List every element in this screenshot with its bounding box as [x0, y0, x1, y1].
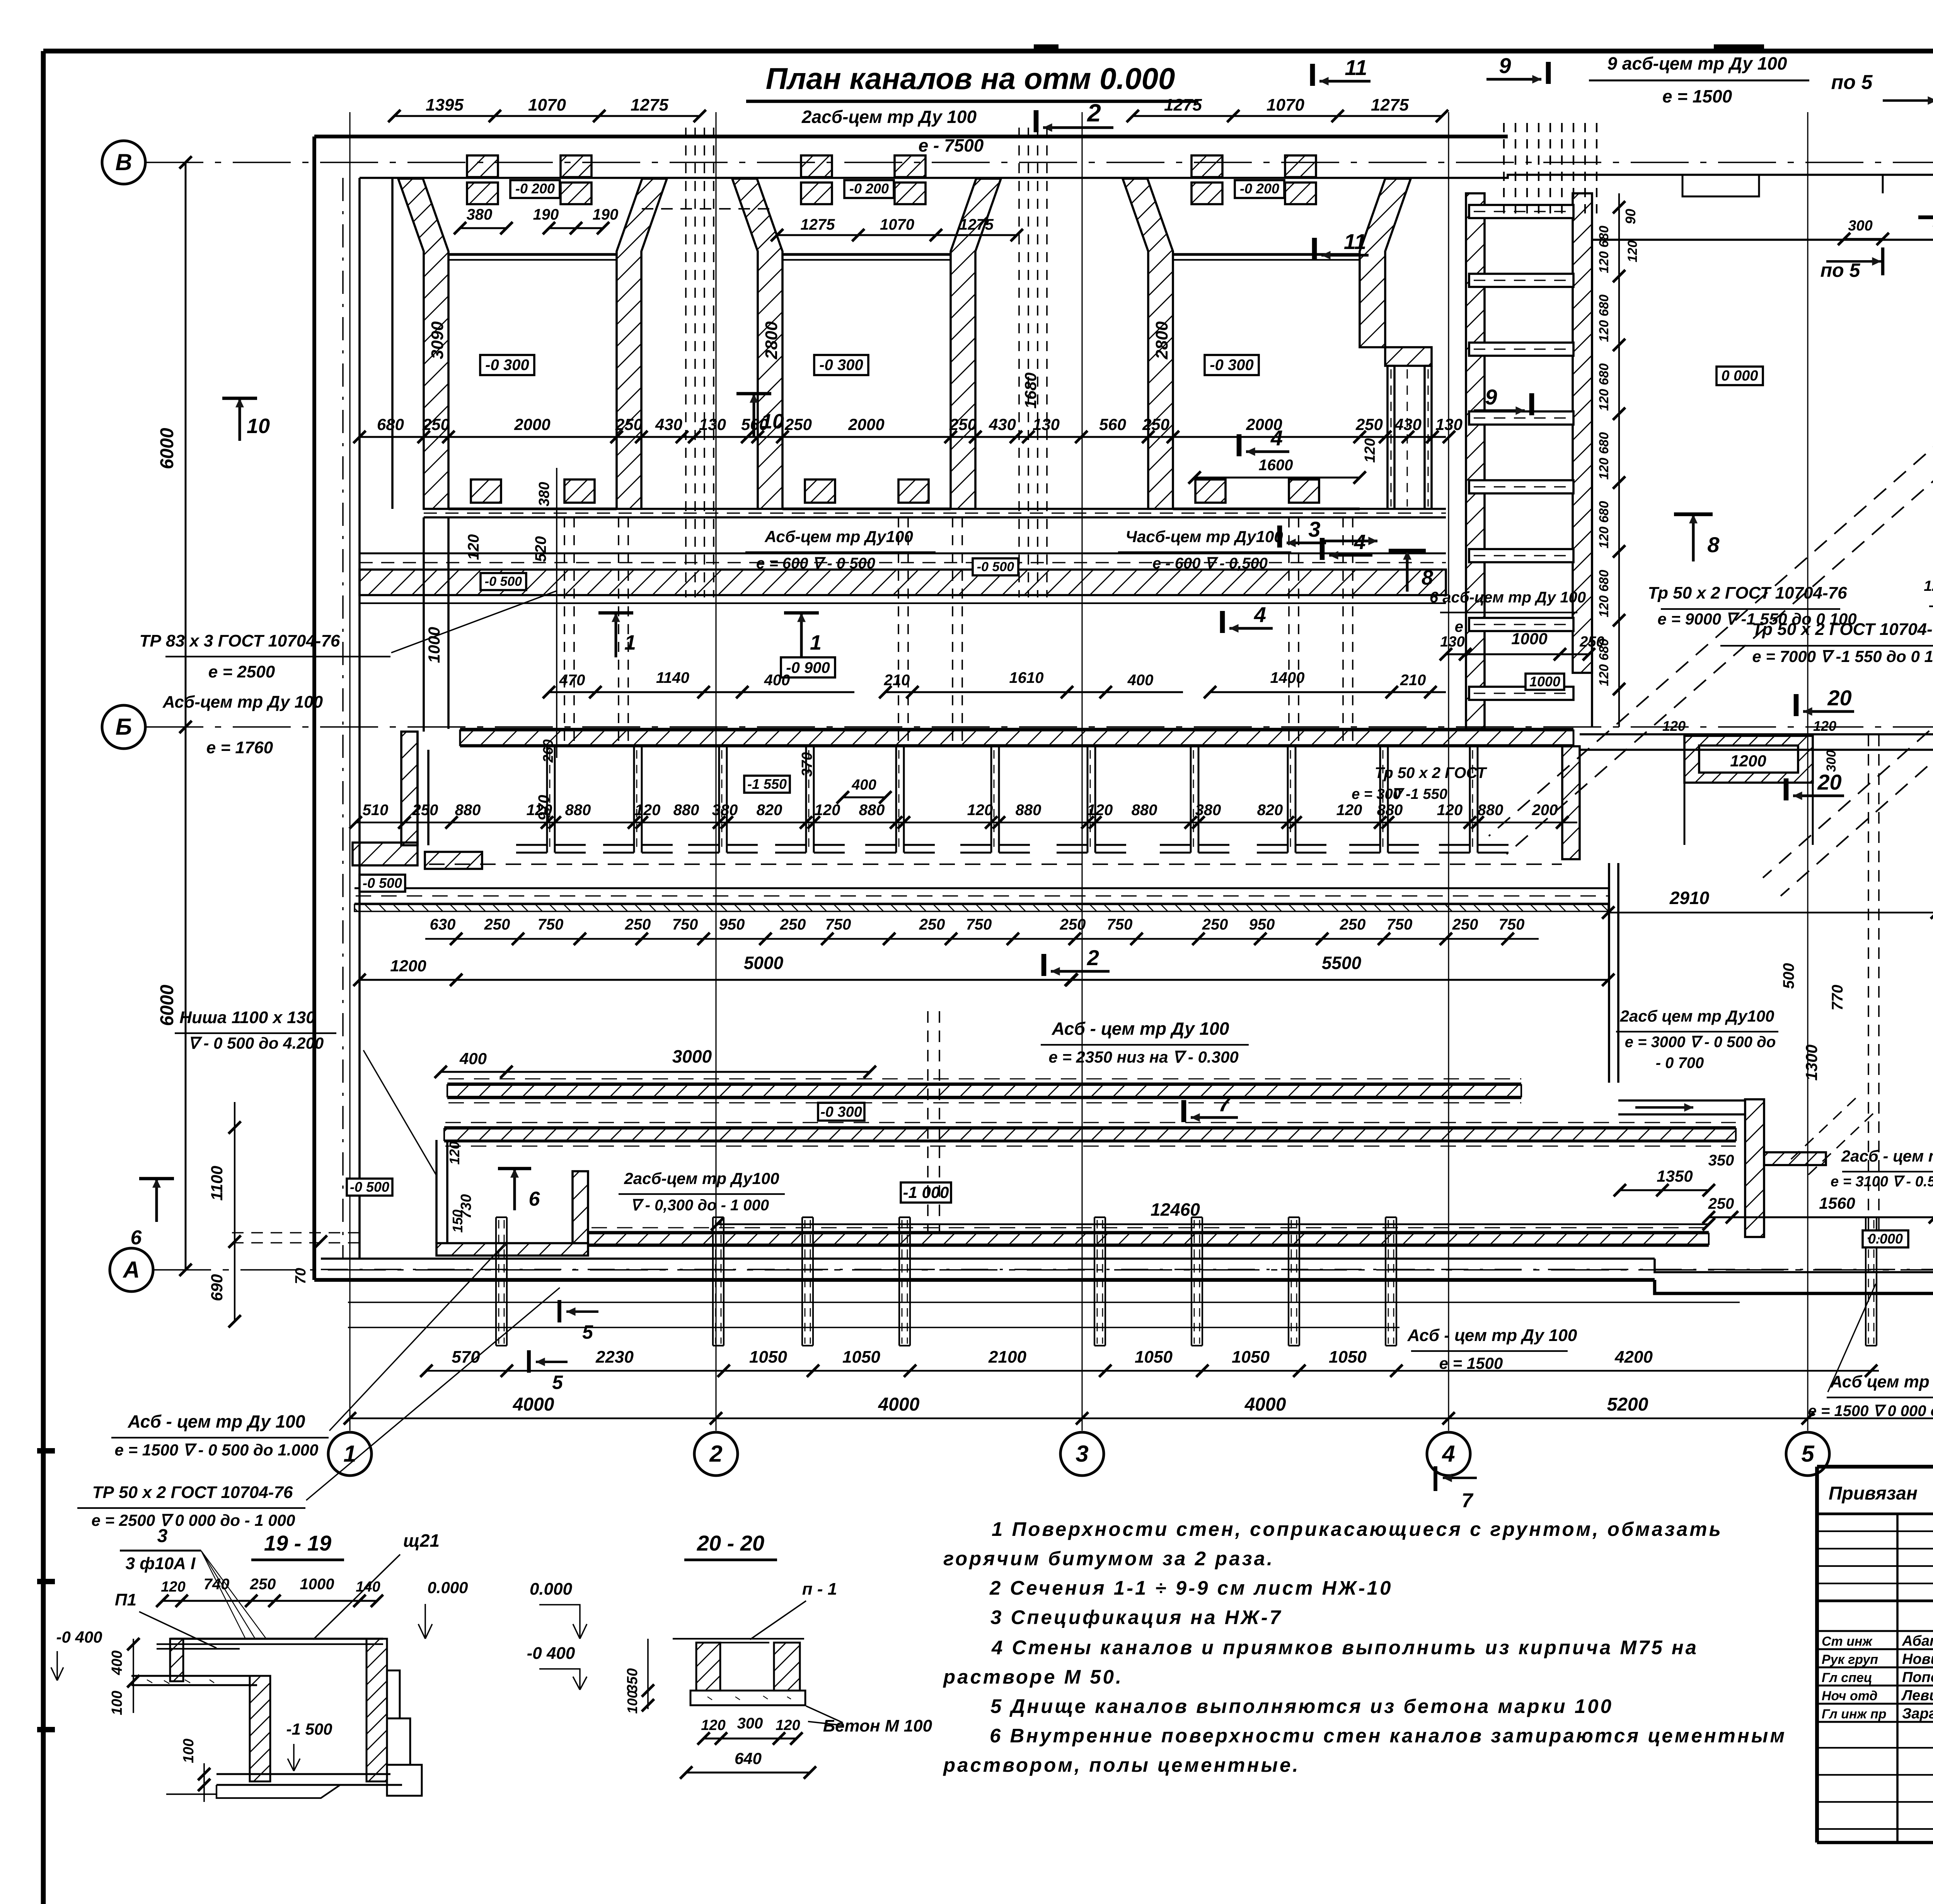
bottom dim row 570/2230/1050...	[425, 1370, 1879, 1372]
grid axis B horizontal	[102, 141, 145, 184]
svg-text:3: 3	[1076, 1441, 1088, 1467]
svg-text:раствором, полы цементные.: раствором, полы цементные.	[943, 1754, 1300, 1776]
cell2 dim row 1275/1070/1275	[777, 234, 1017, 236]
svg-text:-0 500: -0 500	[977, 560, 1014, 574]
axis circle 4	[1427, 1432, 1470, 1476]
svg-text:Привязан: Привязан	[1829, 1483, 1918, 1504]
svg-text:6 Внутренние поверхности ст: 6 Внутренние поверхности стен каналов за…	[990, 1725, 1786, 1747]
section20 top line	[673, 1638, 804, 1640]
left vertical dim 1100/690	[234, 1102, 235, 1321]
svg-text:1070: 1070	[880, 216, 914, 233]
cut 2 bottom mark	[1042, 954, 1047, 976]
svg-text:880: 880	[1132, 802, 1157, 819]
top dim row left 1395/1070/1275	[394, 115, 700, 117]
svg-text:120: 120	[1662, 718, 1686, 734]
svg-text:120: 120	[1813, 718, 1836, 734]
svg-text:20: 20	[1817, 770, 1841, 794]
bottom trench hatched strip	[588, 1231, 1709, 1233]
svg-text:880: 880	[1377, 802, 1403, 819]
svg-text:380: 380	[712, 802, 738, 819]
corridor vertical lines	[1608, 863, 1610, 1083]
svg-text:0.000: 0.000	[1868, 1231, 1903, 1247]
vertical pipe bundle 9 pipes top	[1503, 123, 1505, 217]
diagonal dashed pipes A	[1489, 385, 1933, 836]
svg-text:9: 9	[1499, 53, 1511, 78]
label 6 asb-cem tr Du100 e=600	[1320, 538, 1325, 560]
svg-text:1050: 1050	[749, 1348, 787, 1367]
svg-text:120: 120	[1625, 241, 1640, 263]
svg-text:120 680: 120 680	[1597, 363, 1611, 411]
svg-text:горячим битумом за 2 раза: горячим битумом за 2 раза.	[943, 1547, 1274, 1570]
svg-text:4: 4	[1442, 1441, 1455, 1467]
svg-text:380: 380	[536, 482, 552, 506]
svg-text:2асб - цем тр Ду100: 2асб - цем тр Ду100	[1841, 1147, 1933, 1165]
cell 3 hatched anchor squares	[1192, 155, 1222, 177]
svg-text:-0 200: -0 200	[515, 181, 555, 196]
svg-text:250: 250	[412, 802, 438, 819]
left outer wall	[312, 136, 316, 1280]
svg-text:7: 7	[1462, 1489, 1474, 1512]
ladder bottom dim 130/1000/250	[1446, 653, 1589, 655]
svg-text:1050: 1050	[842, 1348, 880, 1367]
svg-text:350: 350	[1708, 1152, 1734, 1169]
svg-text:4 Стены каналов и приямко: 4 Стены каналов и приямков выполнить из …	[991, 1636, 1698, 1658]
cell 3 level boxes	[1235, 180, 1284, 198]
svg-text:∇ -1 550: ∇ -1 550	[1392, 786, 1447, 802]
svg-text:740: 740	[204, 1576, 230, 1593]
svg-text:400: 400	[459, 1049, 487, 1068]
svg-text:1: 1	[343, 1441, 356, 1467]
svg-text:1680: 1680	[1021, 372, 1040, 408]
cut 9 left mark	[1529, 393, 1534, 415]
lower long hatched strip	[444, 1126, 1736, 1128]
svg-text:Асб-цем тр Ду100: Асб-цем тр Ду100	[764, 527, 913, 546]
svg-text:Тр 50 х 2 ГОСТ 10704-76: Тр 50 х 2 ГОСТ 10704-76	[1752, 620, 1933, 639]
svg-text:10: 10	[247, 415, 270, 438]
svg-text:2800: 2800	[1152, 321, 1171, 360]
svg-text:370: 370	[799, 752, 815, 776]
comb level box -1550	[744, 776, 790, 793]
svg-text:2асб-цем тр Ду100: 2асб-цем тр Ду100	[624, 1169, 779, 1187]
column axes vertical lines	[349, 112, 350, 1431]
cut 20 left below niche	[1784, 778, 1789, 800]
svg-text:по 5: по 5	[1820, 259, 1861, 281]
svg-text:6000: 6000	[157, 984, 177, 1026]
svg-text:1275: 1275	[1371, 96, 1409, 114]
ladder rotated dims 120/680	[1618, 193, 1620, 727]
comb dim row 750s	[425, 938, 1539, 940]
dim 2910	[1608, 912, 1933, 913]
svg-text:210: 210	[1400, 672, 1426, 689]
dim 5000/5500	[456, 979, 1071, 981]
dim 1600 row cell3	[1195, 477, 1360, 479]
svg-text:5: 5	[552, 1372, 563, 1393]
svg-text:680: 680	[377, 415, 404, 433]
svg-text:250: 250	[1355, 415, 1383, 433]
svg-text:510: 510	[363, 802, 389, 819]
svg-text:3: 3	[157, 1526, 168, 1546]
svg-text:е = 1500: е = 1500	[1439, 1354, 1503, 1372]
grid axis А horizontal	[110, 1248, 153, 1292]
dim row 120/740/250/1000/140 section19	[162, 1600, 377, 1602]
svg-text:560: 560	[741, 415, 768, 433]
svg-text:Ст инж: Ст инж	[1822, 1634, 1873, 1649]
niche side walls below	[1684, 783, 1686, 845]
svg-text:250: 250	[625, 916, 651, 933]
svg-text:4200: 4200	[1614, 1348, 1653, 1367]
svg-text:6: 6	[529, 1188, 540, 1210]
svg-text:190: 190	[533, 206, 559, 223]
svg-text:1000: 1000	[1511, 630, 1547, 648]
svg-text:250: 250	[1452, 916, 1478, 933]
svg-text:120: 120	[447, 1141, 462, 1165]
svg-text:120: 120	[967, 802, 993, 819]
svg-text:380: 380	[467, 206, 493, 223]
svg-text:1600: 1600	[1259, 457, 1293, 474]
section20 side walls hatched	[696, 1643, 720, 1691]
svg-text:120: 120	[815, 802, 840, 819]
svg-text:е - 600 ∇ - 0,500: е - 600 ∇ - 0,500	[1152, 555, 1268, 572]
svg-text:Новикова: Новикова	[1902, 1651, 1933, 1667]
svg-text:100: 100	[624, 1691, 640, 1714]
svg-text:770: 770	[1829, 985, 1846, 1011]
svg-text:Асб - цем тр Ду 100: Асб - цем тр Ду 100	[128, 1411, 305, 1431]
svg-text:2 Сечения 1-1 ÷ 9-9 см ли: 2 Сечения 1-1 ÷ 9-9 см лист НЖ-10	[989, 1577, 1393, 1599]
svg-text:1000: 1000	[1529, 674, 1560, 689]
level box -0900	[781, 657, 835, 677]
dim 1350/350/250/1560	[1620, 1189, 1709, 1191]
section cut 2 top	[1034, 110, 1039, 132]
big arrow right	[1323, 540, 1377, 543]
svg-text:430: 430	[1394, 415, 1422, 433]
section19 top slab	[170, 1638, 383, 1640]
svg-text:Асб-цем тр Ду 100: Асб-цем тр Ду 100	[162, 693, 323, 711]
svg-text:2910: 2910	[1669, 888, 1710, 908]
dim row 470/1140/400 and 210/1610/400 and 1400/210	[549, 691, 854, 693]
1200 niche hatched ring	[1684, 736, 1813, 783]
cut 8 up arrow	[1692, 514, 1695, 561]
svg-text:120 680: 120 680	[1597, 501, 1611, 548]
svg-text:0.000: 0.000	[427, 1578, 468, 1597]
axis B wall band right of comb	[1580, 733, 1933, 735]
svg-text:3000: 3000	[672, 1046, 712, 1066]
svg-text:1275: 1275	[959, 216, 994, 233]
svg-text:570: 570	[452, 1348, 480, 1367]
svg-text:-0 300: -0 300	[1210, 357, 1253, 374]
cut 4 marks	[1237, 434, 1242, 456]
thin channel above hatched strip	[360, 553, 1446, 554]
svg-text:2230: 2230	[595, 1348, 634, 1367]
channel below comb cells	[355, 887, 1608, 889]
svg-text:640: 640	[735, 1749, 762, 1768]
section19 right pier blocks	[387, 1670, 400, 1718]
svg-text:е = 7000 ∇ -1 550 до 0 100: е = 7000 ∇ -1 550 до 0 100	[1752, 647, 1933, 665]
svg-text:250: 250	[1202, 916, 1228, 933]
axis circle 2	[694, 1432, 738, 1476]
cut 20 left in hall	[1794, 694, 1799, 716]
comb cell dividers	[546, 746, 548, 853]
svg-text:20 - 20: 20 - 20	[697, 1531, 764, 1555]
svg-text:300: 300	[1848, 218, 1872, 234]
svg-text:5000: 5000	[744, 953, 784, 973]
svg-text:е = 3000 ∇ - 0 500 до: е = 3000 ∇ - 0 500 до	[1625, 1034, 1776, 1051]
cut 7 mark middle	[1181, 1100, 1186, 1122]
svg-text:100: 100	[109, 1691, 125, 1715]
svg-text:1275: 1275	[801, 216, 835, 233]
svg-text:3: 3	[1308, 517, 1320, 541]
section19 left wall hatched	[170, 1639, 183, 1681]
svg-text:Асб цем тр Ду 100: Асб цем тр Ду 100	[1830, 1372, 1933, 1391]
section19 pit floor	[216, 1773, 390, 1775]
svg-text:∇ - 0,300 до - 1 000: ∇ - 0,300 до - 1 000	[631, 1197, 769, 1214]
cell 1 room	[448, 253, 617, 256]
svg-text:950: 950	[1249, 916, 1275, 933]
cut 10 arrows	[239, 398, 241, 441]
axis circle 5	[1786, 1432, 1829, 1476]
svg-text:750: 750	[966, 916, 992, 933]
comb cells lower dashed line	[429, 863, 1562, 865]
cut 3 mark	[1277, 525, 1282, 548]
svg-text:500: 500	[1780, 963, 1797, 989]
svg-text:2: 2	[709, 1441, 722, 1467]
svg-text:9 асб-цем тр Ду 100: 9 асб-цем тр Ду 100	[1607, 53, 1787, 73]
svg-text:250: 250	[949, 415, 977, 433]
trench pipe stubs	[495, 1217, 497, 1346]
svg-text:11: 11	[1344, 229, 1366, 254]
svg-text:Левин: Левин	[1901, 1687, 1933, 1704]
svg-text:5: 5	[1801, 1441, 1815, 1467]
svg-text:400: 400	[764, 672, 790, 689]
comb left level box -0500	[360, 875, 405, 892]
svg-text:250: 250	[1142, 415, 1169, 433]
svg-text:1070: 1070	[528, 96, 566, 114]
svg-text:260: 260	[540, 739, 556, 763]
svg-text:880: 880	[673, 802, 699, 819]
svg-text:4000: 4000	[1244, 1394, 1286, 1415]
svg-text:1395: 1395	[426, 96, 464, 114]
svg-text:100: 100	[181, 1739, 197, 1763]
cell 2 hatched anchor squares	[801, 155, 832, 177]
svg-text:250: 250	[1060, 916, 1086, 933]
svg-text:1200: 1200	[390, 957, 426, 975]
svg-text:750: 750	[825, 916, 851, 933]
svg-text:120 680: 120 680	[1597, 432, 1611, 479]
svg-text:750: 750	[1387, 916, 1413, 933]
comb dim row 880s	[356, 822, 1577, 823]
svg-text:-0 400: -0 400	[56, 1628, 102, 1646]
svg-text:Часб-цем тр Ду100: Часб-цем тр Ду100	[1125, 527, 1283, 546]
svg-text:Бетон М 100: Бетон М 100	[823, 1716, 932, 1735]
svg-text:5: 5	[582, 1321, 593, 1343]
axis circle 3	[1060, 1432, 1104, 1476]
svg-text:1: 1	[624, 631, 636, 654]
svg-text:1560: 1560	[1819, 1194, 1855, 1212]
dim 1200 left	[360, 979, 456, 981]
svg-text:130: 130	[699, 415, 726, 433]
foundation lines below bottom wall	[348, 1302, 1740, 1303]
svg-text:300: 300	[737, 1715, 763, 1732]
left dimension line 6000/6000	[185, 162, 187, 1270]
svg-text:520: 520	[532, 536, 549, 562]
svg-text:9: 9	[1485, 385, 1497, 409]
short diagonal dashes near nisha	[1786, 1098, 1856, 1164]
svg-text:2: 2	[1087, 945, 1099, 970]
svg-text:-0 500: -0 500	[363, 875, 402, 891]
svg-text:3 Спецификация на НЖ-7: 3 Спецификация на НЖ-7	[990, 1606, 1282, 1628]
svg-text:250: 250	[422, 415, 450, 433]
hall top edge	[1592, 239, 1933, 241]
svg-text:880: 880	[455, 802, 481, 819]
cut 5 marks	[557, 1300, 561, 1322]
svg-text:750: 750	[1107, 916, 1133, 933]
svg-text:1275: 1275	[1164, 96, 1202, 114]
axis circle 1	[328, 1432, 372, 1476]
svg-text:по 5: по 5	[1831, 71, 1873, 94]
svg-text:2асб-цем тр Ду 100: 2асб-цем тр Ду 100	[801, 107, 977, 127]
svg-text:3090: 3090	[428, 321, 447, 359]
svg-text:130: 130	[1435, 415, 1463, 433]
cell 2 room	[782, 253, 951, 256]
svg-text:Асб - цем тр Ду 100: Асб - цем тр Ду 100	[1052, 1019, 1229, 1039]
pit level -0500	[347, 1179, 392, 1196]
svg-text:4: 4	[1254, 602, 1266, 627]
svg-text:4000: 4000	[878, 1394, 920, 1415]
svg-text:е = 1760: е = 1760	[206, 738, 273, 757]
svg-text:3 ф10А I: 3 ф10А I	[126, 1554, 196, 1573]
svg-text:е = 3100 ∇ - 0.500 до - 1 000: е = 3100 ∇ - 0.500 до - 1 000	[1831, 1174, 1933, 1190]
svg-text:е = 1500 ∇ 0 000 до ∇ - У 0: е = 1500 ∇ 0 000 до ∇ - У 0JL	[1808, 1402, 1933, 1419]
svg-text:6000: 6000	[157, 428, 177, 469]
svg-text:-0 200: -0 200	[1240, 181, 1279, 196]
svg-text:120: 120	[635, 802, 661, 819]
svg-text:200: 200	[1532, 802, 1558, 819]
svg-text:820: 820	[1257, 802, 1283, 819]
svg-text:210: 210	[884, 672, 910, 689]
svg-text:430: 430	[655, 415, 682, 433]
horizontal dashed pair across shaft gap1	[642, 208, 769, 210]
svg-text:11: 11	[1345, 55, 1367, 80]
svg-text:1610: 1610	[1009, 669, 1044, 686]
svg-text:-0 500: -0 500	[485, 574, 522, 589]
hall left wall line	[1591, 240, 1593, 727]
svg-text:Ниша 1100 х 130: Ниша 1100 х 130	[179, 1008, 315, 1027]
svg-text:4: 4	[1353, 531, 1365, 554]
section20 dim 120/300/120	[704, 1738, 796, 1740]
svg-text:19 - 19: 19 - 19	[264, 1531, 331, 1555]
level boxes -0500 on strip	[481, 573, 526, 590]
svg-text:120: 120	[1087, 802, 1113, 819]
svg-text:350: 350	[624, 1668, 641, 1692]
svg-text:120: 120	[1437, 802, 1463, 819]
svg-text:250: 250	[919, 916, 945, 933]
svg-text:5 Днище каналов выполняютс: 5 Днище каналов выполняются из бетона ма…	[990, 1695, 1613, 1717]
svg-text:1070: 1070	[1267, 96, 1304, 114]
svg-text:Абаталова: Абаталова	[1902, 1633, 1933, 1649]
svg-text:Б: Б	[116, 714, 132, 740]
level box -0300 middle	[818, 1103, 864, 1121]
level box 0000 hall	[1717, 367, 1763, 385]
svg-text:250: 250	[1340, 916, 1366, 933]
section20 bottom slab with dots	[690, 1691, 805, 1705]
svg-text:Ноч отд: Ноч отд	[1822, 1689, 1877, 1703]
svg-text:2: 2	[1087, 99, 1101, 127]
svg-text:6: 6	[131, 1227, 142, 1249]
svg-text:щ21: щ21	[403, 1530, 440, 1551]
pipe shafts below cells (dashed)	[564, 517, 565, 744]
svg-text:1400: 1400	[1270, 669, 1305, 686]
comb right end hatched wall	[1562, 746, 1580, 859]
cell 1 hatched anchor squares	[467, 155, 498, 177]
svg-text:400: 400	[109, 1650, 125, 1675]
svg-text:120: 120	[1924, 578, 1933, 594]
fold tick top	[1714, 44, 1764, 53]
svg-text:400: 400	[851, 777, 876, 793]
cell1 small dims 380/190/190	[460, 227, 506, 229]
svg-text:250: 250	[784, 415, 812, 433]
grid axis Б horizontal	[102, 705, 145, 749]
svg-text:-0 300: -0 300	[819, 357, 863, 374]
svg-text:400: 400	[1127, 672, 1154, 689]
main horizontal dim row through cells y1130	[360, 436, 1446, 438]
svg-text:План каналов на отм 0.000: План каналов на отм 0.000	[766, 61, 1175, 96]
svg-text:820: 820	[757, 802, 782, 819]
svg-text:е = 2500 ∇ 0 000 до - 1 000: е = 2500 ∇ 0 000 до - 1 000	[92, 1511, 295, 1529]
svg-text:150: 150	[450, 1210, 465, 1233]
comb left end corridor walls	[423, 517, 425, 732]
title block signature table	[1817, 1465, 1933, 1469]
svg-text:5200: 5200	[1607, 1394, 1648, 1415]
svg-text:-0 500: -0 500	[350, 1179, 389, 1195]
svg-text:растворе М 50.: растворе М 50.	[943, 1666, 1123, 1688]
level box -1000	[901, 1182, 951, 1203]
cell 3 room	[1173, 253, 1360, 256]
cell 2 level boxes	[844, 180, 894, 198]
svg-text:- 0 700: - 0 700	[1656, 1054, 1704, 1071]
svg-text:690: 690	[208, 1274, 226, 1301]
svg-text:-0 400: -0 400	[527, 1644, 575, 1663]
section19 pit right wall hatched	[366, 1639, 387, 1781]
svg-text:П1: П1	[115, 1590, 136, 1609]
bottom wall band at axis A	[321, 1257, 1655, 1260]
svg-text:-1 000: -1 000	[903, 1183, 949, 1201]
corridor wall left of cell1	[391, 178, 394, 509]
svg-text:Гл спец: Гл спец	[1822, 1670, 1872, 1685]
svg-text:120: 120	[1362, 438, 1378, 462]
svg-text:2000: 2000	[514, 415, 550, 433]
comb top hatched band	[460, 728, 1573, 730]
cut 8 up arrow	[1406, 551, 1409, 592]
svg-text:750: 750	[1499, 916, 1525, 933]
svg-text:0.000: 0.000	[530, 1580, 573, 1599]
svg-text:7: 7	[1218, 1092, 1231, 1116]
svg-text:4000: 4000	[513, 1394, 554, 1415]
svg-text:1000: 1000	[425, 627, 443, 663]
svg-text:750: 750	[538, 916, 564, 933]
channel strip under cell rooms	[424, 508, 1446, 510]
svg-text:880: 880	[1478, 802, 1503, 819]
svg-text:1050: 1050	[1135, 1348, 1173, 1367]
svg-text:120 680: 120 680	[1597, 294, 1611, 342]
cell 1 level boxes	[510, 180, 560, 198]
svg-text:120: 120	[776, 1717, 800, 1733]
svg-text:2800: 2800	[762, 321, 781, 360]
cut 11 mark	[1312, 238, 1317, 260]
cell 1 hatched funnel walls	[398, 179, 448, 509]
1000 box near ladder bottom	[1526, 674, 1564, 690]
svg-text:ТР 50 х 2 ГОСТ 10704-76: ТР 50 х 2 ГОСТ 10704-76	[92, 1483, 293, 1502]
svg-text:120: 120	[527, 802, 552, 819]
svg-text:120 680: 120 680	[1597, 570, 1611, 617]
